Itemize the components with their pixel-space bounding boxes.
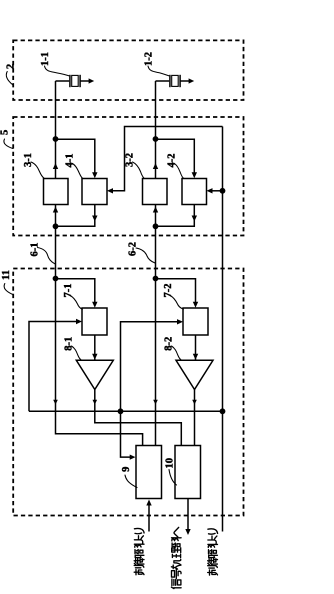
wire 8-2 output to block 10 [192, 390, 197, 446]
wire antenna 1-1 feed [55, 81, 57, 139]
svg-text:1-1: 1-1 [40, 52, 51, 66]
wire bus riser to 7-2 control input [121, 319, 184, 411]
svg-text:10: 10 [165, 458, 176, 469]
wire antenna 1-2 feed [155, 81, 157, 139]
node B2 [153, 223, 159, 229]
svg-text:3-1: 3-1 [23, 153, 34, 167]
block 9 [136, 446, 162, 499]
svg-text:8-2: 8-2 [164, 337, 175, 351]
block 4-1 [82, 179, 107, 205]
block 3-2 [143, 179, 168, 205]
svg-text:7-1: 7-1 [63, 284, 74, 298]
svg-text:8-1: 8-1 [64, 337, 75, 351]
label 11 [1, 270, 13, 294]
wire A2 to 4-2 input [156, 139, 198, 178]
block 3-1 [44, 179, 69, 205]
node A1 [53, 136, 59, 142]
svg-text:6-2: 6-2 [127, 242, 138, 256]
wire control bus [29, 410, 223, 412]
wire 3-1 bottom to node B1 (arrow up into 3-1) [53, 205, 58, 227]
wire 8-1 output to block 10 [93, 390, 182, 446]
svg-text:4-1: 4-1 [64, 154, 75, 168]
dashed box 2 (antenna unit) [13, 40, 243, 100]
wire control loop to 4-1 LO input [107, 127, 223, 194]
node E2 [220, 408, 226, 414]
label from-control-unit (seigyobu yori) for control net [208, 529, 218, 575]
svg-text:5: 5 [0, 130, 11, 135]
label 5 [0, 130, 13, 149]
wire bus to 7-1 control input [29, 319, 82, 412]
node A2 [153, 136, 159, 142]
label 7-2 [163, 284, 183, 310]
wire 3-2 bottom to node B2 (arrow up into 3-2) [153, 205, 158, 227]
wire 4-2 output down to node B2 [158, 205, 197, 227]
wire 6-1 down to block 9 [53, 279, 142, 446]
svg-text:2: 2 [5, 64, 16, 69]
node C2 [153, 276, 159, 282]
wire control vertical line (net 3) [222, 127, 224, 532]
wire C1 to 7-1 input [56, 279, 98, 308]
svg-text:11: 11 [1, 270, 12, 280]
dashed box 11 (control/combining unit) [13, 269, 243, 516]
label 6-2 [127, 242, 155, 263]
label 6-1 [29, 243, 54, 264]
svg-text:9: 9 [121, 467, 132, 472]
svg-text:1-2: 1-2 [143, 52, 154, 66]
wire 7-1 to 8-1 [92, 335, 97, 360]
label 1-1 [40, 52, 69, 76]
label 3-1 [23, 153, 44, 178]
block 10 [175, 446, 201, 499]
label 10 [165, 458, 177, 485]
wire E1 to block 9 control input [121, 411, 136, 459]
amplifier 8-2 [176, 360, 213, 389]
wire C2 to 7-2 input [156, 279, 199, 308]
block 7-1 [82, 308, 107, 335]
label 8-2 [164, 337, 182, 360]
amplifier 8-1 [76, 360, 113, 389]
block 7-2 [183, 308, 208, 335]
wire A1 to 4-1 input [56, 139, 98, 178]
svg-text:3-2: 3-2 [124, 153, 135, 167]
label to-signal-processing-unit (shingoshoribu he) [171, 527, 181, 588]
wire net 6-2 [155, 226, 157, 278]
node C1 [53, 276, 59, 282]
antenna 1-2 [156, 75, 195, 87]
wire 4-1 output down to node B1 [58, 205, 98, 227]
node B1 [53, 223, 59, 229]
svg-text:4-2: 4-2 [166, 154, 177, 168]
node E1 [118, 408, 124, 414]
wire 6-2 down to block 9 [153, 279, 158, 446]
antenna 1-1 [56, 75, 95, 87]
label 4-1 [64, 154, 82, 179]
label from-control-unit (seigyobu yori) for block 9 input [134, 528, 144, 574]
label 8-1 [64, 337, 82, 360]
label 9 [121, 467, 137, 488]
node D [220, 188, 226, 194]
label 3-2 [124, 153, 144, 178]
label 7-1 [63, 284, 82, 310]
svg-text:7-2: 7-2 [163, 284, 174, 298]
wire A1 to 3-1 output (arrow up) [53, 139, 58, 179]
label 2 [5, 64, 16, 85]
wire net 6-1 [55, 226, 57, 278]
wire block 10 output to signal processing [185, 499, 190, 536]
label 1-2 [143, 52, 168, 76]
svg-text:6-1: 6-1 [29, 243, 40, 257]
block 4-2 [182, 179, 207, 205]
dashed box 5 (converter unit) [13, 117, 243, 236]
wire from control unit into block 9 [146, 500, 151, 532]
label 4-2 [166, 154, 183, 179]
wire 7-2 to 8-2 [193, 335, 198, 360]
wire D to 4-2 LO input [207, 188, 223, 193]
wire A2 to 3-2 output (arrow up) [153, 139, 158, 179]
